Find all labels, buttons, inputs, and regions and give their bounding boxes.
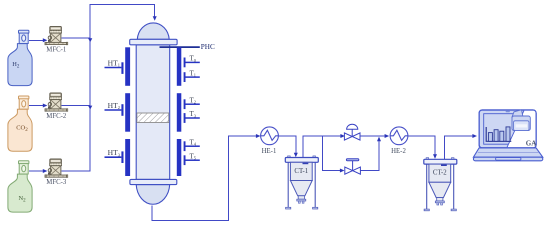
svg-text:GA: GA [526,139,537,147]
svg-text:CT-2: CT-2 [433,170,447,177]
svg-text:MFC-3: MFC-3 [46,179,67,186]
svg-text:HE-2: HE-2 [391,148,406,155]
svg-text:PHC: PHC [201,43,215,51]
svg-text:MFC-2: MFC-2 [46,113,67,120]
svg-text:CT-1: CT-1 [294,168,308,175]
svg-text:HE-1: HE-1 [262,148,277,155]
svg-text:MFC-1: MFC-1 [46,46,66,53]
